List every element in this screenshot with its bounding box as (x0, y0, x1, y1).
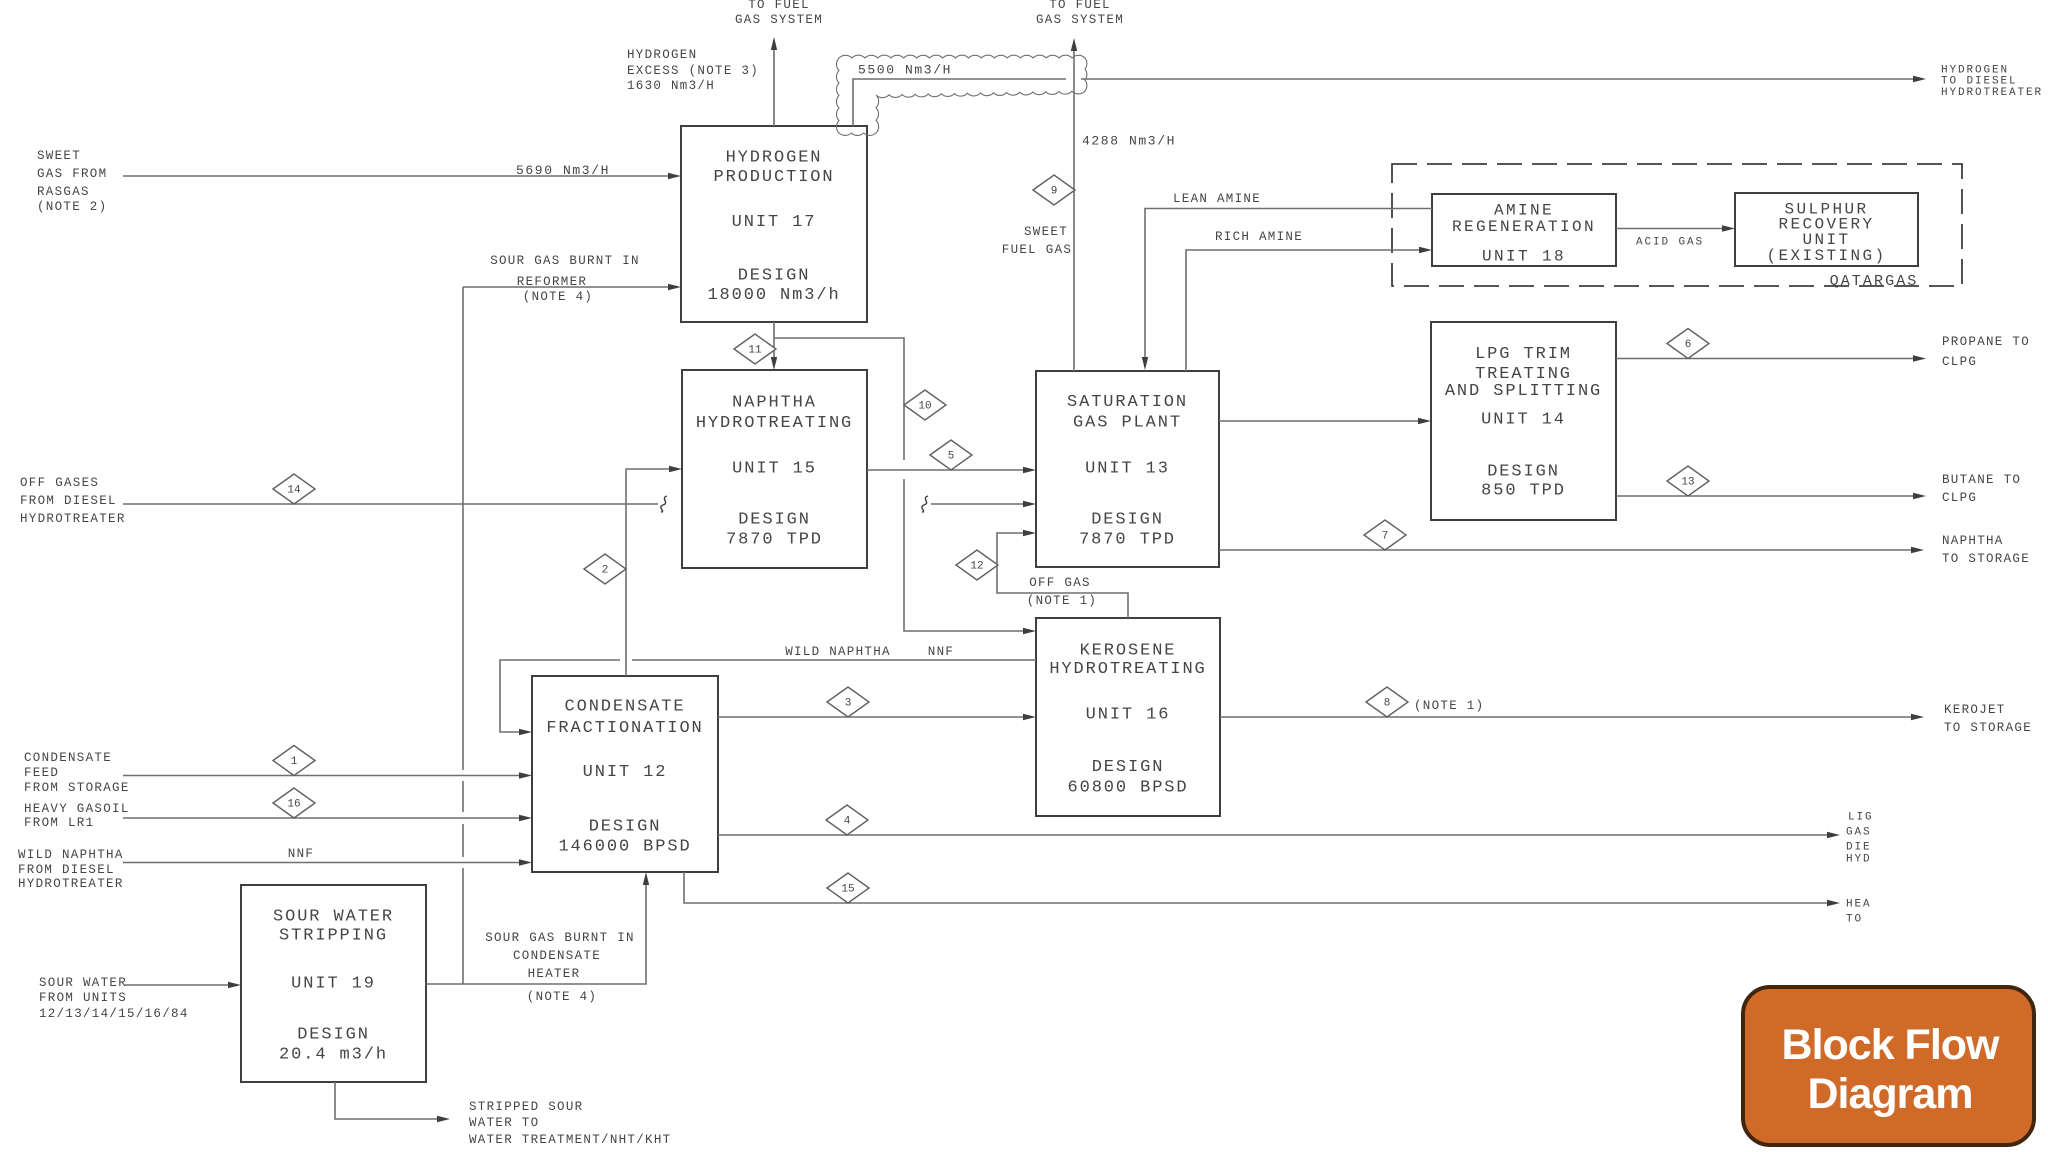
svg-text:OFF GASES: OFF GASES (20, 476, 99, 490)
svg-text:20.4 m3/h: 20.4 m3/h (279, 1046, 388, 1065)
svg-text:UNIT 17: UNIT 17 (732, 213, 817, 232)
svg-text:DESIGN: DESIGN (1487, 463, 1560, 482)
svg-text:FROM LR1: FROM LR1 (24, 816, 94, 830)
svg-text:STRIPPING: STRIPPING (279, 926, 388, 945)
svg-text:PROPANE TO: PROPANE TO (1942, 335, 2030, 349)
svg-text:FROM UNITS: FROM UNITS (39, 991, 127, 1005)
svg-text:EXCESS (NOTE 3): EXCESS (NOTE 3) (627, 64, 759, 78)
svg-text:1: 1 (291, 756, 298, 768)
svg-text:AND SPLITTING: AND SPLITTING (1445, 382, 1602, 401)
svg-text:SATURATION: SATURATION (1067, 393, 1188, 412)
svg-text:TO FUEL: TO FUEL (1049, 0, 1111, 12)
svg-text:7: 7 (1382, 531, 1389, 543)
svg-text:UNIT 12: UNIT 12 (583, 763, 668, 782)
svg-text:16: 16 (287, 799, 300, 811)
svg-text:DESIGN: DESIGN (1092, 758, 1165, 777)
svg-text:HYDROTREATER: HYDROTREATER (18, 877, 124, 891)
svg-text:CONDENSATE: CONDENSATE (24, 751, 112, 765)
svg-text:KEROSENE: KEROSENE (1080, 641, 1177, 660)
svg-text:CLPG: CLPG (1942, 491, 1977, 505)
svg-text:REFORMER: REFORMER (517, 275, 587, 289)
svg-text:12/13/14/15/16/84: 12/13/14/15/16/84 (39, 1007, 189, 1021)
svg-text:GAS PLANT: GAS PLANT (1073, 413, 1182, 432)
svg-text:HYDROGEN: HYDROGEN (726, 149, 823, 168)
svg-text:LEAN AMINE: LEAN AMINE (1173, 192, 1261, 206)
svg-text:UNIT 18: UNIT 18 (1482, 247, 1566, 265)
svg-text:HYDROTREATER: HYDROTREATER (1941, 87, 2043, 99)
svg-text:DESIGN: DESIGN (589, 818, 662, 837)
svg-text:SOUR WATER: SOUR WATER (273, 907, 394, 926)
svg-text:RICH AMINE: RICH AMINE (1215, 230, 1303, 244)
svg-text:GAS SYSTEM: GAS SYSTEM (735, 13, 823, 27)
svg-text:WILD NAPHTHA: WILD NAPHTHA (785, 645, 891, 659)
svg-text:DESIGN: DESIGN (738, 511, 811, 530)
svg-text:FEED: FEED (24, 766, 59, 780)
svg-text:UNIT 15: UNIT 15 (732, 460, 817, 479)
svg-text:STRIPPED SOUR: STRIPPED SOUR (469, 1100, 583, 1114)
svg-text:DESIGN: DESIGN (297, 1025, 370, 1044)
svg-text:SOUR GAS BURNT IN: SOUR GAS BURNT IN (490, 254, 640, 268)
svg-text:TO: TO (1846, 914, 1863, 926)
svg-text:4: 4 (844, 816, 851, 828)
svg-text:TO DIESEL: TO DIESEL (1941, 76, 2018, 88)
svg-text:14: 14 (287, 485, 301, 497)
svg-text:12: 12 (970, 561, 983, 573)
svg-text:(NOTE 1): (NOTE 1) (1414, 699, 1484, 713)
svg-text:(NOTE 2): (NOTE 2) (37, 200, 107, 214)
svg-text:REGENERATION: REGENERATION (1452, 218, 1596, 236)
svg-text:KEROJET: KEROJET (1944, 703, 2006, 717)
svg-text:FROM DIESEL: FROM DIESEL (18, 863, 115, 877)
svg-text:WATER TO: WATER TO (469, 1116, 539, 1130)
svg-text:FROM STORAGE: FROM STORAGE (24, 781, 130, 795)
svg-text:OFF GAS: OFF GAS (1029, 576, 1091, 590)
svg-text:GAS SYSTEM: GAS SYSTEM (1036, 13, 1124, 27)
svg-text:NAPHTHA: NAPHTHA (1942, 534, 2004, 548)
svg-text:HYDROTREATING: HYDROTREATING (696, 414, 853, 433)
svg-text:18000 Nm3/h: 18000 Nm3/h (707, 286, 840, 305)
svg-text:PRODUCTION: PRODUCTION (713, 168, 834, 187)
svg-text:TO STORAGE: TO STORAGE (1942, 552, 2030, 566)
svg-text:FRACTIONATION: FRACTIONATION (546, 719, 703, 738)
svg-text:WILD NAPHTHA: WILD NAPHTHA (18, 848, 124, 862)
svg-text:NAPHTHA: NAPHTHA (732, 394, 817, 413)
svg-text:FUEL GAS: FUEL GAS (1002, 243, 1072, 257)
svg-text:146000 BPSD: 146000 BPSD (558, 838, 691, 857)
svg-text:TO FUEL: TO FUEL (748, 0, 810, 12)
svg-text:4288 Nm3/H: 4288 Nm3/H (1082, 133, 1176, 148)
svg-text:(NOTE 1): (NOTE 1) (1027, 594, 1097, 608)
svg-text:CONDENSATE: CONDENSATE (564, 697, 685, 716)
svg-text:UNIT 19: UNIT 19 (291, 975, 376, 994)
svg-text:2: 2 (602, 565, 609, 577)
svg-text:10: 10 (918, 401, 931, 413)
svg-text:(NOTE 4): (NOTE 4) (523, 290, 593, 304)
svg-text:WATER TREATMENT/NHT/KHT: WATER TREATMENT/NHT/KHT (469, 1133, 671, 1147)
svg-text:9: 9 (1051, 186, 1058, 198)
svg-text:1630 Nm3/H: 1630 Nm3/H (627, 79, 715, 93)
svg-text:CLPG: CLPG (1942, 355, 1977, 369)
svg-text:SWEET: SWEET (1024, 225, 1068, 239)
svg-text:6: 6 (1685, 339, 1692, 351)
svg-text:HYDROTREATING: HYDROTREATING (1049, 660, 1206, 679)
svg-text:SOUR WATER: SOUR WATER (39, 976, 127, 990)
svg-text:Diagram: Diagram (1807, 1070, 1972, 1118)
svg-text:HYDROTREATER: HYDROTREATER (20, 512, 126, 526)
svg-text:LPG TRIM: LPG TRIM (1475, 345, 1572, 364)
svg-text:7870 TPD: 7870 TPD (726, 531, 823, 550)
svg-text:3: 3 (845, 698, 852, 710)
svg-text:SOUR GAS BURNT IN: SOUR GAS BURNT IN (485, 931, 635, 945)
svg-text:Block Flow: Block Flow (1782, 1021, 2001, 1069)
svg-text:15: 15 (841, 884, 854, 896)
svg-text:AMINE: AMINE (1494, 201, 1554, 219)
svg-text:HEAVY GASOIL: HEAVY GASOIL (24, 802, 130, 816)
svg-text:HYDROGEN: HYDROGEN (627, 48, 697, 62)
svg-text:BUTANE TO: BUTANE TO (1942, 473, 2021, 487)
svg-text:(NOTE 4): (NOTE 4) (527, 990, 597, 1004)
svg-text:DESIGN: DESIGN (1091, 511, 1164, 530)
svg-text:RASGAS: RASGAS (37, 185, 90, 199)
svg-text:5500 Nm3/H: 5500 Nm3/H (858, 62, 952, 77)
svg-text:DESIGN: DESIGN (738, 267, 811, 286)
svg-text:CONDENSATE: CONDENSATE (513, 949, 601, 963)
svg-text:7870 TPD: 7870 TPD (1079, 530, 1176, 549)
svg-text:UNIT 13: UNIT 13 (1085, 460, 1170, 479)
svg-text:HEATER: HEATER (528, 967, 581, 981)
svg-text:SWEET: SWEET (37, 149, 81, 163)
svg-text:UNIT 14: UNIT 14 (1481, 411, 1566, 430)
svg-text:ACID GAS: ACID GAS (1636, 237, 1704, 249)
svg-text:11: 11 (748, 345, 762, 357)
svg-text:5690 Nm3/H: 5690 Nm3/H (516, 163, 610, 178)
svg-text:NNF: NNF (928, 645, 954, 659)
svg-text:UNIT 16: UNIT 16 (1086, 706, 1171, 725)
svg-text:(EXISTING): (EXISTING) (1766, 247, 1886, 265)
svg-text:5: 5 (948, 451, 955, 463)
svg-text:NNF: NNF (288, 847, 314, 861)
svg-text:TO STORAGE: TO STORAGE (1944, 721, 2032, 735)
svg-text:8: 8 (1384, 698, 1391, 710)
svg-text:850 TPD: 850 TPD (1481, 482, 1566, 501)
svg-text:FROM DIESEL: FROM DIESEL (20, 494, 117, 508)
svg-text:13: 13 (1681, 477, 1694, 489)
svg-text:60800 BPSD: 60800 BPSD (1067, 778, 1188, 797)
svg-text:QATARGAS: QATARGAS (1830, 273, 1919, 290)
svg-text:GAS FROM: GAS FROM (37, 167, 107, 181)
